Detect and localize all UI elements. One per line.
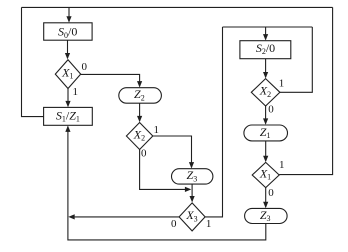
arrowhead into Z2 top bbox=[137, 81, 142, 87]
wire X1 right branch 0 to Z3 right bbox=[265, 188, 267, 207]
arrowhead into X2 right top bbox=[263, 72, 268, 78]
wire Z1 to X1 right bbox=[265, 141, 267, 161]
arrowhead up into S1/Z1 bottom bbox=[65, 126, 70, 132]
wire X3 branch 0 to left riser bbox=[75, 216, 180, 218]
state box S1/Z1 bbox=[44, 107, 93, 125]
arrowhead into S1/Z1 top bbox=[65, 101, 70, 107]
wire top feedback line bbox=[22, 6, 333, 8]
arrowhead into S0 top bbox=[66, 16, 71, 22]
svg-text:1: 1 bbox=[73, 86, 79, 98]
wire entry into S2 bbox=[265, 27, 267, 40]
decision diamond X2 right bbox=[251, 79, 280, 106]
output oval Z3 middle bbox=[172, 169, 213, 184]
arrowhead into X1 right top bbox=[263, 156, 268, 162]
wire Z3 right bottom return to S1/Z1 bbox=[68, 127, 266, 240]
svg-text:0: 0 bbox=[141, 148, 147, 160]
arrowhead X2 branch 0 joining wire bbox=[185, 187, 191, 192]
wire left feedback into S1/Z1 bbox=[22, 7, 44, 116]
svg-text:1: 1 bbox=[279, 159, 285, 171]
arrowhead into X3 top bbox=[190, 196, 195, 202]
arrowhead into S2 top bbox=[263, 34, 268, 40]
svg-text:0: 0 bbox=[81, 61, 87, 73]
wire X1 right branch 1 riser to top bbox=[279, 7, 332, 174]
svg-text:1: 1 bbox=[153, 124, 159, 136]
wire S2 to X2 right bbox=[265, 59, 267, 77]
svg-text:0: 0 bbox=[268, 187, 274, 199]
arrowhead into X2 top bbox=[137, 116, 142, 122]
output oval Z3 right bbox=[245, 208, 288, 223]
decision diamond X3 bbox=[179, 203, 205, 231]
output oval Z2 bbox=[119, 88, 162, 104]
svg-text:S2/0: S2/0 bbox=[256, 41, 275, 56]
state box S2/0 bbox=[240, 41, 291, 59]
decision diamond X1 left bbox=[55, 60, 80, 89]
svg-text:1: 1 bbox=[206, 218, 212, 230]
wire X2 branch 0 joining Z3-X3 wire bbox=[140, 150, 185, 190]
decision diamond X2 middle bbox=[126, 123, 152, 150]
arrowhead into X1 top bbox=[65, 53, 70, 59]
wire X1 branch 0 to Z2 bbox=[81, 74, 140, 86]
wire X2 right branch 1 riser bbox=[280, 27, 312, 92]
wire X3 branch 1 riser to inner top bbox=[205, 27, 222, 217]
wire X2 branch 1 to Z3 bbox=[153, 136, 192, 168]
svg-text:0: 0 bbox=[268, 104, 274, 116]
wire inner top line bbox=[223, 26, 313, 28]
wire S0 to X1 bbox=[67, 40, 69, 58]
output oval Z1 right bbox=[244, 125, 288, 141]
svg-text:0: 0 bbox=[171, 218, 177, 230]
wire X2 right branch 0 to Z1 bbox=[265, 106, 267, 124]
svg-text:1: 1 bbox=[279, 78, 285, 90]
arrowhead into Z3 middle top bbox=[189, 162, 194, 168]
wire X1 branch 1 to S1/Z1 bbox=[67, 89, 69, 107]
decision diamond X1 right bbox=[252, 162, 279, 187]
svg-text:S0/0: S0/0 bbox=[58, 25, 77, 40]
wire Z3 to X3 bbox=[191, 184, 193, 201]
arrowhead into Z1 top bbox=[263, 118, 268, 124]
arrowhead X3 branch 0 into riser bbox=[68, 214, 74, 219]
arrowhead into Z3 right top bbox=[263, 202, 268, 208]
state box S0/0 bbox=[44, 23, 92, 40]
wire entry into S0 bbox=[68, 7, 70, 21]
wire Z2 to X2 bbox=[139, 103, 141, 121]
